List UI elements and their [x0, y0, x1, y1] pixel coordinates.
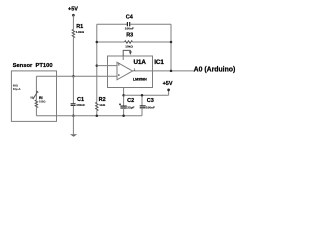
feedback right column wire	[170, 24, 172, 71]
node A junction dot	[72, 75, 75, 78]
+5V right node dot	[167, 89, 170, 92]
svg-text:R2: R2	[99, 97, 106, 103]
label Ri	[39, 96, 43, 100]
resistor R3 zigzag	[125, 41, 133, 43]
value 100nF of C1	[76, 103, 85, 107]
ground rail junction dot at C2	[122, 114, 125, 117]
node dot under +5V top left	[72, 14, 75, 17]
value 10kΩ of R3	[125, 45, 133, 49]
label R1	[76, 24, 83, 30]
junction dot R3 right	[170, 41, 173, 44]
value 100nF of C4	[125, 26, 134, 30]
capacitor C2 plates	[120, 106, 126, 108]
resistor R3 left wire	[97, 41, 125, 43]
svg-text:100Ω: 100Ω	[39, 100, 45, 104]
+5V supply label right	[163, 81, 173, 87]
svg-text:1.8kΩ: 1.8kΩ	[76, 30, 85, 34]
+5V rail riser right	[168, 90, 170, 95]
capacitor C4 right wire	[130, 23, 171, 25]
value 22µF of C2	[127, 106, 134, 110]
+5V rail junction dot at op-amp pin	[122, 94, 125, 97]
value 1kΩ of R2	[99, 103, 105, 107]
svg-text:C1: C1	[77, 97, 84, 103]
RTD bottom wire	[35, 108, 37, 116]
svg-text:+5V: +5V	[68, 6, 78, 12]
sensor note line2 Kty+A	[13, 87, 21, 91]
feedback left column wire	[96, 24, 98, 102]
ground arrow symbol	[70, 134, 77, 137]
sensor note line1 60Ω	[13, 84, 18, 88]
svg-text:Sensor PT100: Sensor PT100	[13, 63, 53, 69]
op-amp V+ inner stem	[122, 56, 124, 60]
svg-text:100nF: 100nF	[76, 103, 85, 107]
RTD Ri zigzag	[35, 100, 37, 108]
wire node row to op-amp +input	[36, 75, 117, 77]
value 100nF of C3	[146, 105, 155, 109]
capacitor C4 left wire	[97, 23, 127, 25]
svg-text:Kty+A: Kty+A	[13, 87, 21, 91]
junction dot R3 left	[96, 41, 99, 44]
+5V supply label top left	[68, 6, 78, 12]
pin 2 label	[118, 62, 120, 66]
ground rail junction dot at C1	[72, 114, 75, 117]
svg-text:C4: C4	[126, 14, 134, 20]
sensor bottom wire to ground rail	[36, 115, 56, 117]
capacitor C4 plates	[127, 22, 129, 26]
+5V rail	[124, 94, 169, 96]
resistor R3 right wire	[133, 41, 171, 43]
pin 3 label	[118, 73, 120, 77]
resistor R1 zigzag	[72, 29, 74, 37]
capacitor C3 plates	[140, 106, 146, 108]
svg-text:C2: C2	[127, 98, 134, 104]
label Sensor PT100	[13, 63, 53, 69]
RTD Ri top wire from node row	[35, 76, 37, 100]
wire R2 to ground rail	[96, 111, 98, 116]
label 50	[30, 96, 33, 100]
svg-text:U1A: U1A	[134, 59, 147, 66]
op-amp V+ arrow symbol	[123, 50, 130, 56]
label C1	[77, 97, 84, 103]
capacitor C2 polarity plus	[119, 103, 121, 105]
op-amp output wire to A0	[133, 70, 194, 72]
op-amp IC1 rectangle	[108, 56, 153, 88]
svg-text:A0 (Arduino): A0 (Arduino)	[194, 66, 236, 73]
label C4	[126, 14, 134, 20]
+5V rail junction dot at C3	[141, 94, 144, 97]
label U1A	[134, 59, 147, 66]
value 1.8kΩ	[76, 30, 85, 34]
label R2	[99, 97, 106, 103]
svg-text:60Ω: 60Ω	[13, 84, 18, 88]
svg-text:R3: R3	[126, 32, 133, 38]
label LM358N	[133, 77, 147, 81]
wire C2 to ground rail	[123, 108, 125, 116]
svg-text:22µF: 22µF	[127, 106, 134, 110]
svg-text:C3: C3	[147, 98, 154, 104]
label C3	[147, 98, 154, 104]
junction dot inverting input	[96, 64, 99, 67]
wire C3 to ground rail	[141, 108, 143, 116]
wire +5V to R1	[72, 15, 74, 29]
op-amp V+ pin wire down	[123, 88, 125, 107]
wire C1 to ground rail	[72, 105, 74, 115]
ground rail	[57, 115, 143, 117]
svg-text:IC1: IC1	[154, 59, 164, 66]
op-amp U1A triangle	[117, 62, 133, 80]
value 100Ω of Ri	[39, 100, 45, 104]
svg-text:1kΩ: 1kΩ	[99, 103, 105, 107]
pin 1 label	[134, 67, 136, 71]
output junction dot	[170, 70, 173, 73]
ground stem	[72, 116, 74, 135]
label R3	[126, 32, 133, 38]
svg-text:100nF: 100nF	[125, 26, 134, 30]
wire node A down to C1	[72, 76, 74, 103]
label IC1	[154, 59, 164, 66]
svg-text:+5V: +5V	[163, 81, 173, 87]
wire C3 top	[141, 95, 143, 105]
wire R1 to node A	[72, 38, 74, 76]
svg-text:10kΩ: 10kΩ	[125, 45, 133, 49]
svg-text:100nF: 100nF	[146, 105, 155, 109]
label A0 (Arduino)	[194, 66, 236, 73]
capacitor C1 plates	[71, 104, 76, 106]
resistor R2 zigzag	[96, 102, 98, 110]
sensor box	[11, 71, 56, 122]
ground rail junction dot at R2	[96, 114, 99, 117]
svg-text:Ri: Ri	[39, 96, 43, 100]
svg-text:LM358N: LM358N	[133, 77, 147, 81]
label C2	[127, 98, 134, 104]
wire to inverting input	[97, 65, 117, 67]
RTD temperature arrow	[33, 92, 38, 99]
